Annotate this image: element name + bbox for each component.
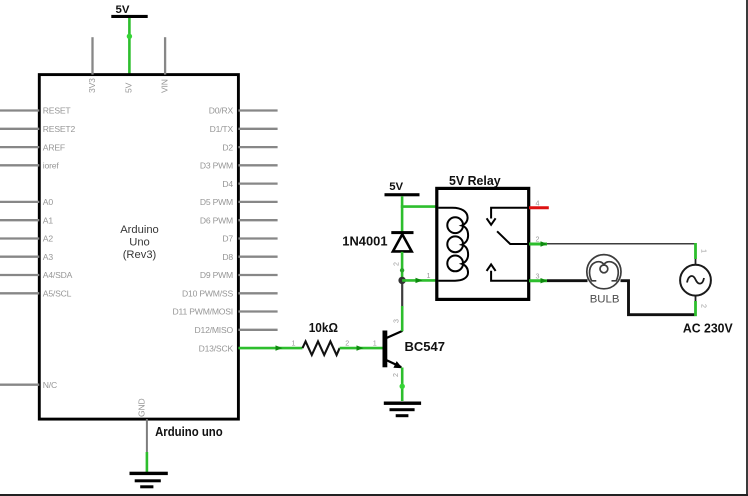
svg-text:D0/RX: D0/RX (209, 106, 234, 116)
svg-text:Arduino uno: Arduino uno (155, 424, 223, 439)
svg-text:D3 PWM: D3 PWM (200, 161, 233, 171)
right pin D10 PWM/SS (238, 292, 277, 294)
svg-text:2: 2 (391, 262, 400, 266)
svg-text:A5/SCL: A5/SCL (43, 289, 72, 299)
svg-text:3V3: 3V3 (87, 78, 97, 93)
svg-text:RESET2: RESET2 (43, 124, 76, 134)
Arduino Uno module A1 (0, 37, 278, 419)
svg-text:1N4001: 1N4001 (342, 234, 387, 249)
pin 3V3 (top) (91, 37, 93, 74)
left pin RESET2 (0, 128, 39, 130)
svg-text:1: 1 (700, 249, 709, 253)
wire relay pin3 to bulb (thick) (547, 279, 588, 282)
left pin A1 (0, 219, 39, 221)
svg-text:D12/MISO: D12/MISO (194, 325, 233, 335)
wire AC top stub (694, 243, 697, 265)
left pin N/C (0, 384, 39, 386)
right pin D11 PWM/MOSI (238, 310, 277, 312)
right pin D8 (238, 256, 277, 258)
ground symbol (emitter) (384, 402, 421, 418)
svg-text:D7: D7 (222, 234, 233, 244)
svg-text:A2: A2 (43, 234, 54, 244)
svg-text:A1: A1 (43, 215, 54, 225)
transistor Q1 BC547 (383, 331, 445, 369)
bulb LP1 (587, 255, 621, 306)
wire junction to relay pin 1 (402, 278, 437, 283)
svg-text:D8: D8 (222, 252, 233, 262)
relay coil (438, 208, 468, 281)
left pin ioref (0, 164, 39, 166)
svg-text:2: 2 (391, 373, 400, 377)
svg-text:A4/SDA: A4/SDA (43, 270, 73, 280)
relay NC contact (pin 4) with down arrow (491, 208, 529, 219)
svg-text:10kΩ: 10kΩ (309, 321, 338, 335)
wire 5V supply to Arduino 5V pin (127, 18, 132, 75)
resistor R1 10k (303, 321, 340, 355)
svg-text:1: 1 (427, 271, 431, 280)
left pin RESET (0, 109, 39, 111)
wire bulb to AC source bottom (thick) (621, 281, 695, 315)
svg-text:5V: 5V (116, 4, 130, 16)
relay pin4 red stub (unconnected) (529, 206, 549, 209)
left pin A4/SDA (0, 274, 39, 276)
wire collector up to junction (401, 281, 404, 331)
svg-text:1: 1 (292, 339, 296, 348)
right pin D7 (238, 237, 277, 239)
wire emitter down to ground (400, 368, 405, 402)
svg-text:2: 2 (536, 235, 540, 244)
junction node dot (398, 277, 405, 284)
svg-text:BC547: BC547 (405, 339, 445, 354)
svg-text:D4: D4 (222, 179, 233, 189)
svg-text:D10 PWM/SS: D10 PWM/SS (182, 289, 233, 299)
power symbol P2 5V (above diode) (385, 181, 420, 196)
left pin AREF (0, 146, 39, 148)
relay pin3 stub (529, 278, 548, 283)
svg-text:2: 2 (345, 339, 349, 348)
svg-text:D9 PWM: D9 PWM (200, 270, 233, 280)
right pin D0/RX (238, 109, 277, 111)
relay pin2 stub (529, 241, 548, 246)
right pin D3 PWM (238, 164, 277, 166)
AC source V1 (680, 265, 733, 336)
svg-text:N/C: N/C (43, 380, 57, 390)
svg-text:4: 4 (536, 198, 540, 207)
svg-text:D13/SCK: D13/SCK (199, 343, 234, 353)
svg-text:3: 3 (391, 319, 400, 323)
right pin D9 PWM (238, 274, 277, 276)
svg-text:2: 2 (700, 304, 709, 308)
pin VIN (top) (164, 37, 166, 74)
wire diode anode to junction (401, 252, 404, 280)
svg-text:D2: D2 (222, 142, 233, 152)
left pin A2 (0, 237, 39, 239)
wire D13/SCK to resistor (238, 345, 302, 350)
left pin A5/SCL (0, 292, 39, 294)
svg-text:(Rev3): (Rev3) (123, 249, 157, 261)
border right edge (746, 0, 748, 496)
svg-text:D6 PWM: D6 PWM (200, 215, 233, 225)
wire 5V to diode cathode and relay coil branch (401, 196, 437, 231)
relay K1 5V Relay (437, 173, 529, 300)
svg-text:RESET: RESET (43, 106, 72, 116)
left pin A0 (0, 201, 39, 203)
right pin D4 (238, 182, 277, 184)
svg-text:BULB: BULB (590, 294, 620, 306)
power symbol P1 5V (top left) (111, 4, 147, 18)
wire resistor to transistor base (340, 345, 383, 350)
diode D1 1N4001 (342, 231, 413, 251)
svg-text:D11 PWM/MOSI: D11 PWM/MOSI (173, 307, 233, 317)
wire relay pin2 to AC source (thin) (547, 243, 696, 245)
svg-text:Uno: Uno (129, 237, 150, 249)
svg-text:A3: A3 (43, 252, 54, 262)
wire GND pin down (146, 419, 148, 473)
relay common blade (pin 2) (497, 231, 529, 244)
svg-text:5V: 5V (389, 181, 403, 193)
right pin D6 PWM (238, 219, 277, 221)
svg-text:5V Relay: 5V Relay (449, 173, 501, 188)
svg-text:3: 3 (536, 271, 540, 280)
svg-text:1: 1 (373, 339, 377, 348)
right pin D1/TX (238, 128, 277, 130)
right pin D2 (238, 146, 277, 148)
svg-text:AC 230V: AC 230V (683, 321, 733, 336)
svg-text:VIN: VIN (159, 79, 169, 93)
svg-text:GND: GND (137, 399, 147, 418)
svg-text:AREF: AREF (43, 142, 65, 152)
right pin D5 PWM (238, 201, 277, 203)
svg-text:ioref: ioref (43, 161, 60, 171)
svg-text:D1/TX: D1/TX (210, 124, 234, 134)
border bottom edge (0, 494, 748, 496)
svg-text:A0: A0 (43, 197, 54, 207)
ground symbol (Arduino GND) (130, 472, 168, 489)
left pin A3 (0, 256, 39, 258)
right pin D12/MISO (238, 329, 277, 331)
wire AC bottom stub (695, 296, 697, 316)
svg-text:Arduino: Arduino (120, 224, 159, 236)
svg-text:5V: 5V (123, 82, 133, 93)
relay NO contact (pin 3) with up arrow (491, 271, 529, 281)
svg-text:D5 PWM: D5 PWM (200, 197, 233, 207)
